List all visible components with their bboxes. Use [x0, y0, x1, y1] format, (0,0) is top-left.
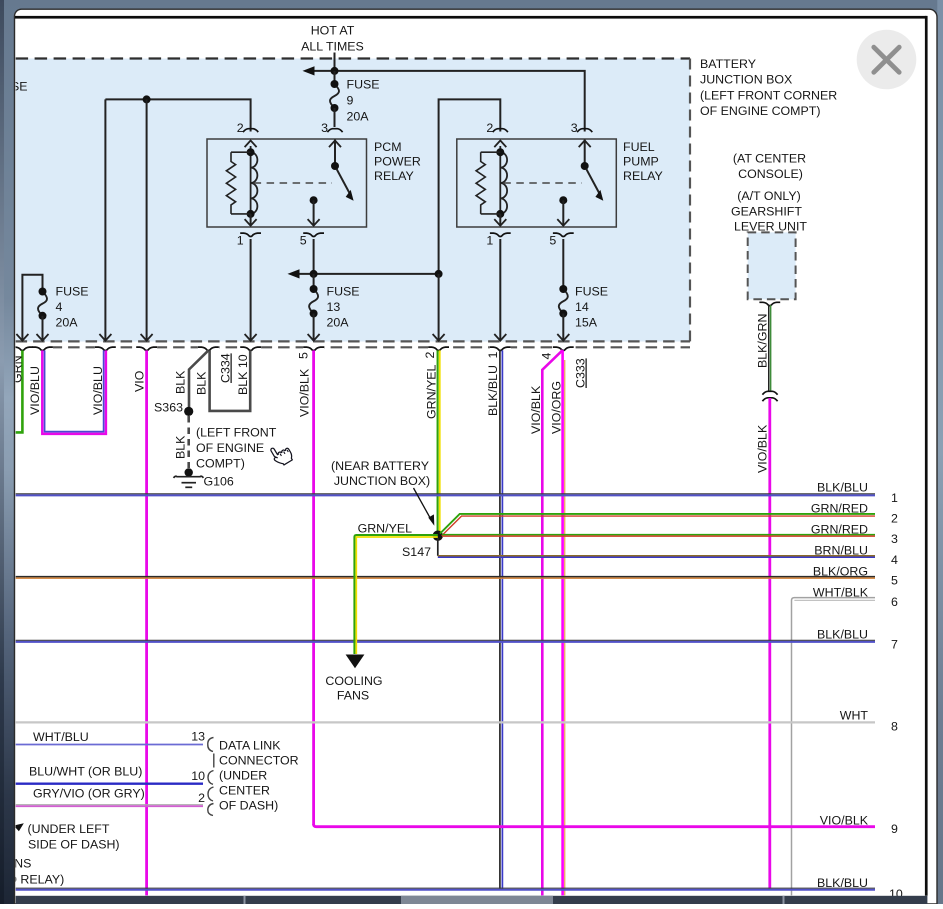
label BLK/BLU 7: [817, 628, 868, 642]
wire PCM pin2 feed to left: [105, 99, 250, 339]
wire BRN/BLU stub + line 4: [438, 538, 875, 557]
wire BLK/ORG line 5: [16, 577, 875, 579]
relay K2 fuel pump relay pin numbers: [486, 121, 577, 248]
svg-text:C334: C334: [219, 353, 233, 383]
number 6: [891, 595, 898, 609]
relay K2 fuel pump relay switch: [579, 140, 604, 201]
label BLK/BLU 1: [817, 481, 868, 495]
svg-text:20A: 20A: [56, 316, 79, 330]
label NS (clipped): [0, 857, 31, 871]
relay K2 fuel pump relay resistor: [476, 152, 500, 214]
svg-text:VIO/BLK: VIO/BLK: [820, 814, 869, 828]
svg-text:GRN/YEL: GRN/YEL: [358, 522, 413, 536]
svg-text:FUSE: FUSE: [575, 285, 608, 299]
svg-text:GRN/RED: GRN/RED: [811, 502, 868, 516]
svg-text:GRN/RED: GRN/RED: [811, 523, 868, 537]
wire VIO/BLU U-loop: [42, 350, 106, 434]
svg-text:(NEAR BATTERY: (NEAR BATTERY: [331, 459, 429, 473]
relay K2 fuel pump relay dashed link: [503, 182, 581, 184]
number 3: [891, 532, 898, 546]
label GRN: [10, 355, 24, 383]
wire VIO drop inside box: [146, 99, 148, 339]
svg-text:BLK 10: BLK 10: [236, 354, 250, 395]
wire PCM pin5 to fuse 13: [313, 239, 315, 274]
number 1: [891, 491, 898, 505]
svg-text:VIO/BLK: VIO/BLK: [529, 385, 543, 434]
cooling fans arrow: [346, 655, 365, 669]
svg-text:OF ENGINE COMPT): OF ENGINE COMPT): [700, 104, 820, 118]
wire GRN exits left: [16, 350, 23, 432]
label BLK dashed: [174, 435, 188, 459]
svg-text:BLK/BLU: BLK/BLU: [817, 481, 868, 495]
svg-text:BLK/ORG: BLK/ORG: [813, 565, 868, 579]
svg-text:S363: S363: [154, 401, 183, 415]
wire mid horizontal with arrow: [288, 269, 439, 278]
svg-text:VIO: VIO: [133, 370, 147, 392]
wire BLK dashed to ground: [187, 416, 190, 468]
svg-text:RELAY: RELAY: [623, 169, 663, 183]
fuse F13: [309, 274, 318, 340]
svg-text:PUMP: PUMP: [623, 155, 659, 169]
wire top feed horizontal: [303, 66, 585, 131]
svg-text:2: 2: [891, 512, 898, 526]
svg-text:1: 1: [237, 234, 244, 248]
node grn/yel junction: [435, 270, 443, 278]
inline connector C? hats: [762, 391, 777, 401]
svg-text:BLK: BLK: [174, 370, 188, 394]
svg-text:2: 2: [198, 791, 205, 805]
fuse F9: [330, 71, 339, 127]
relay K2 fuel pump relay common pole: [557, 196, 569, 226]
svg-text:DATA LINK: DATA LINK: [219, 739, 281, 753]
svg-text:JUNCTION BOX: JUNCTION BOX: [700, 73, 792, 87]
svg-text:5: 5: [891, 574, 898, 588]
label VIO/BLU right: [91, 366, 105, 415]
number 7: [891, 638, 898, 652]
wire BLK/GRN: [769, 305, 771, 391]
number 8: [891, 720, 898, 734]
splice S147: [402, 531, 443, 560]
label VIO/BLK 4: [529, 385, 543, 434]
dlc brace: [208, 738, 214, 816]
svg-text:CONNECTOR: CONNECTOR: [219, 754, 299, 768]
svg-text:BLU/WHT (OR BLU): BLU/WHT (OR BLU): [29, 765, 142, 779]
label FUSE (left edge, clipped): [0, 80, 28, 94]
relay K1 PCM power relay common pole: [308, 196, 320, 226]
label BLK U-left: [195, 371, 209, 395]
svg-text:2: 2: [486, 121, 493, 135]
pin 5: [297, 352, 311, 359]
relay K1 PCM power relay pin2 arrow: [245, 141, 257, 148]
svg-text:BLK/BLU: BLK/BLU: [817, 628, 868, 642]
wire VIO full drop: [145, 350, 148, 895]
label VIO: [133, 370, 147, 392]
number 9: [891, 822, 898, 836]
svg-text:6: 6: [891, 595, 898, 609]
svg-text:FUSE: FUSE: [327, 285, 360, 299]
wire VIO/BLK line 9: [314, 824, 875, 827]
svg-text:HOT AT: HOT AT: [311, 24, 355, 38]
relay K1 PCM power relay switch: [329, 140, 354, 201]
wire PCM pin1 to C334 pin10: [250, 239, 252, 340]
label RELAY (clipped): [8, 873, 64, 887]
svg-text:(LEFT FRONT CORNER: (LEFT FRONT CORNER: [700, 89, 837, 103]
svg-text:VIO/BLU: VIO/BLU: [91, 366, 105, 415]
label BLK diagonal: [174, 370, 188, 394]
svg-text:5: 5: [297, 352, 311, 359]
svg-text:BLK/GRN: BLK/GRN: [756, 314, 770, 368]
border connector cups: [12, 343, 574, 351]
svg-text:BLK: BLK: [174, 435, 188, 459]
node fuse13 top: [310, 270, 318, 278]
wire from HOT AT down into box: [334, 53, 336, 71]
svg-text:CONSOLE): CONSOLE): [738, 167, 803, 181]
label VIO/BLK 9: [820, 814, 869, 828]
node at fuse 9 top: [331, 67, 339, 75]
label GRN/YEL vertical: [425, 364, 439, 419]
label FUSE 9 20A: [347, 78, 380, 124]
relay K2 fuel pump relay pin2 arrow: [494, 141, 506, 148]
svg-text:COOLING: COOLING: [325, 674, 382, 688]
wire fuel relay pin2 feed: [439, 99, 501, 274]
label VIO/BLK right: [756, 424, 770, 473]
number 10: [889, 887, 903, 901]
label BLK/ORG 5: [813, 565, 868, 579]
relay K1 PCM power relay pin connectors: [240, 129, 342, 237]
label BRN/BLU 4: [814, 544, 868, 558]
svg-text:2: 2: [237, 121, 244, 135]
number 13: [191, 730, 205, 744]
svg-text:4: 4: [540, 353, 554, 360]
svg-text:BLK: BLK: [195, 371, 209, 395]
wire fuel pin1 to border: [499, 239, 501, 340]
label under left side of dash: [28, 822, 120, 852]
label K1 PCM power relay: [374, 140, 421, 183]
relay K1 PCM power relay resistor: [226, 152, 250, 214]
svg-text:FUEL: FUEL: [623, 140, 655, 154]
label COOLING FANS: [325, 674, 382, 703]
svg-text:3: 3: [321, 121, 328, 135]
relay K1 PCM power relay dashed link: [254, 182, 332, 184]
svg-text:VIO/BLK: VIO/BLK: [756, 424, 770, 473]
battery junction box (dashed blue box): [16, 59, 690, 348]
svg-text:WHT: WHT: [840, 709, 869, 723]
wire GRN/RED line 2: [440, 514, 875, 536]
relay K1 PCM power relay pin1 wire: [245, 214, 257, 226]
wire BLK/BLU line 7: [16, 640, 875, 642]
label VIO/ORG: [550, 381, 564, 434]
splice S363: [154, 401, 193, 417]
label near battery junction box: [331, 459, 430, 488]
wire GRY/VIO 2: [16, 805, 203, 807]
label GRN/RED 3: [811, 523, 868, 537]
gearshift lever unit dashed box: [748, 232, 796, 299]
pin 1: [486, 352, 500, 359]
wire VIO/BLK 5 drop: [312, 350, 315, 825]
svg-text:JUNCTION BOX): JUNCTION BOX): [334, 474, 430, 488]
svg-text:WHT/BLU: WHT/BLU: [33, 730, 89, 744]
pointer arrow under left: [14, 823, 24, 831]
relay K1 PCM power relay pin numbers: [237, 121, 328, 248]
wire BLK C334 U-loop: [210, 350, 251, 411]
label battery junction box: [700, 57, 837, 118]
svg-text:5: 5: [549, 234, 556, 248]
svg-text:OF DASH): OF DASH): [219, 799, 278, 813]
relay box K2 fuel pump relay: [457, 139, 617, 227]
svg-text:4: 4: [56, 300, 63, 314]
svg-text:G106: G106: [204, 475, 234, 489]
svg-text:4: 4: [891, 553, 898, 567]
number 4: [891, 553, 898, 567]
wire WHT/BLK line 6 and drop: [792, 598, 876, 896]
svg-text:GEARSHIFT: GEARSHIFT: [731, 205, 802, 219]
svg-text:GRN/YEL: GRN/YEL: [425, 364, 439, 419]
label BLK/BLU vertical: [486, 365, 500, 416]
svg-text:7: 7: [891, 638, 898, 652]
svg-text:FUSE: FUSE: [347, 78, 380, 92]
svg-text:FANS: FANS: [337, 689, 369, 703]
svg-text:20A: 20A: [347, 110, 370, 124]
label GRN/YEL horizontal: [358, 522, 413, 536]
label BLK 10: [236, 354, 250, 395]
svg-text:GRY/VIO (OR GRY): GRY/VIO (OR GRY): [33, 787, 145, 801]
number 5: [891, 574, 898, 588]
svg-text:13: 13: [327, 300, 341, 314]
label WHT 8: [840, 709, 869, 723]
label C333: [574, 358, 588, 388]
wire BLK/BLU line 10: [16, 888, 875, 890]
svg-text:2: 2: [423, 352, 437, 359]
svg-text:D RELAY): D RELAY): [8, 873, 64, 887]
svg-text:POWER: POWER: [374, 155, 421, 169]
svg-text:S147: S147: [402, 545, 431, 559]
svg-text:RELAY: RELAY: [374, 169, 414, 183]
svg-text:5: 5: [300, 234, 307, 248]
pin 4: [540, 353, 554, 360]
label K2 fuel pump relay: [623, 140, 663, 183]
pin 2: [423, 352, 437, 359]
fuse F14: [559, 285, 568, 340]
node VIO feed: [143, 95, 151, 103]
wire grn/yel junction to border: [438, 274, 440, 340]
wire GRN/YEL drop: [438, 350, 440, 532]
label FUSE 4 20A: [56, 285, 89, 330]
svg-text:3: 3: [891, 532, 898, 546]
gearshift connector cup: [759, 302, 780, 305]
svg-text:(AT CENTER: (AT CENTER: [733, 152, 806, 166]
label GRN/RED 2: [811, 502, 868, 516]
svg-text:14: 14: [575, 300, 589, 314]
svg-text:VIO/ORG: VIO/ORG: [550, 381, 564, 434]
mouse cursor: [269, 441, 295, 468]
wire WHT/BLU 13: [16, 744, 203, 746]
wire BLK/BLU line 1: [16, 494, 875, 496]
svg-text:1: 1: [486, 234, 493, 248]
number 10 dlc: [191, 769, 205, 783]
fuse F4 loop wire: [22, 275, 42, 340]
wire fuel pin5 to fuse 14: [562, 239, 564, 289]
svg-text:1: 1: [891, 491, 898, 505]
svg-text:10: 10: [191, 769, 205, 783]
svg-text:CENTER: CENTER: [219, 784, 270, 798]
svg-text:BATTERY: BATTERY: [700, 57, 756, 71]
svg-text:ALL TIMES: ALL TIMES: [301, 40, 364, 54]
svg-text:1: 1: [486, 352, 500, 359]
svg-text:OF ENGINE: OF ENGINE: [196, 441, 264, 455]
label VIO/BLU left: [28, 366, 42, 415]
svg-text:(UNDER: (UNDER: [219, 769, 267, 783]
number 2: [891, 512, 898, 526]
wire WHT line 8: [16, 721, 875, 723]
wire VIO/BLK right drop: [768, 398, 771, 889]
label HOT AT ALL TIMES: [301, 24, 364, 54]
svg-text:PCM: PCM: [374, 140, 402, 154]
svg-text:20A: 20A: [327, 316, 350, 330]
fuse F4: [38, 288, 47, 340]
svg-text:15A: 15A: [575, 316, 598, 330]
label BLK/BLU 10: [817, 876, 868, 890]
svg-text:FUSE: FUSE: [56, 285, 89, 299]
label C334: [219, 353, 233, 383]
svg-text:VIO/BLU: VIO/BLU: [28, 366, 42, 415]
svg-text:9: 9: [347, 94, 354, 108]
wire BLU/WHT 10: [16, 783, 203, 785]
svg-text:9: 9: [891, 822, 898, 836]
svg-text:8: 8: [891, 720, 898, 734]
relay K2 fuel pump relay pin connectors: [490, 129, 592, 237]
svg-text:BLK/BLU: BLK/BLU: [817, 876, 868, 890]
label VIO/BLK 5: [298, 368, 312, 417]
label WHT/BLU: [33, 730, 89, 744]
relay box K1 PCM power relay: [207, 139, 367, 227]
wire GRN/YEL to cooling fans: [354, 535, 437, 654]
svg-text:COMPT): COMPT): [196, 457, 245, 471]
relay K1 PCM power relay coil: [247, 146, 258, 218]
wire GRN/RED line 3: [442, 535, 875, 537]
svg-text:BRN/BLU: BRN/BLU: [814, 544, 868, 558]
svg-text:13: 13: [191, 730, 205, 744]
label FUSE 13 20A: [327, 285, 360, 330]
svg-text:(UNDER LEFT: (UNDER LEFT: [28, 822, 110, 836]
ground G106: [174, 468, 234, 488]
border exit arrows: [16, 334, 569, 341]
label GRY/VIO (OR GRY): [33, 787, 145, 801]
svg-text:(LEFT FRONT: (LEFT FRONT: [196, 426, 277, 440]
svg-text:(A/T ONLY): (A/T ONLY): [737, 189, 801, 203]
wire VIO/ORG drop: [563, 350, 565, 895]
label left front of engine compt: [196, 426, 277, 471]
relay K2 fuel pump relay coil: [496, 146, 507, 218]
svg-text:WHT/BLK: WHT/BLK: [813, 586, 869, 600]
label BLU/WHT (OR BLU): [29, 765, 142, 779]
wire BLK/BLU 1 drop: [500, 350, 503, 889]
wire BLK diagonal to S363: [189, 350, 208, 407]
svg-text:3: 3: [571, 121, 578, 135]
svg-text:VIO/BLK: VIO/BLK: [298, 368, 312, 417]
pointer arrow to S147: [414, 488, 435, 526]
label FUSE 14 15A: [575, 285, 608, 330]
label BLK/GRN: [756, 314, 770, 368]
relay K2 fuel pump relay pin1 wire: [494, 214, 506, 226]
label DATA LINK CONNECTOR: [219, 739, 299, 813]
number 2 dlc: [198, 791, 205, 805]
label WHT/BLK 6: [813, 586, 869, 600]
svg-text:SIDE OF DASH): SIDE OF DASH): [28, 838, 120, 852]
wire VIO/BLK 4 drop: [542, 350, 562, 895]
svg-text:BLK/BLU: BLK/BLU: [486, 365, 500, 416]
svg-text:C333: C333: [574, 358, 588, 388]
gearshift lever unit labels: [731, 152, 807, 234]
